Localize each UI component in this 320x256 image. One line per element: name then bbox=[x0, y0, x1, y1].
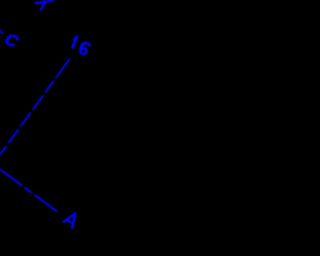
svg-text:C: C bbox=[2, 29, 22, 52]
